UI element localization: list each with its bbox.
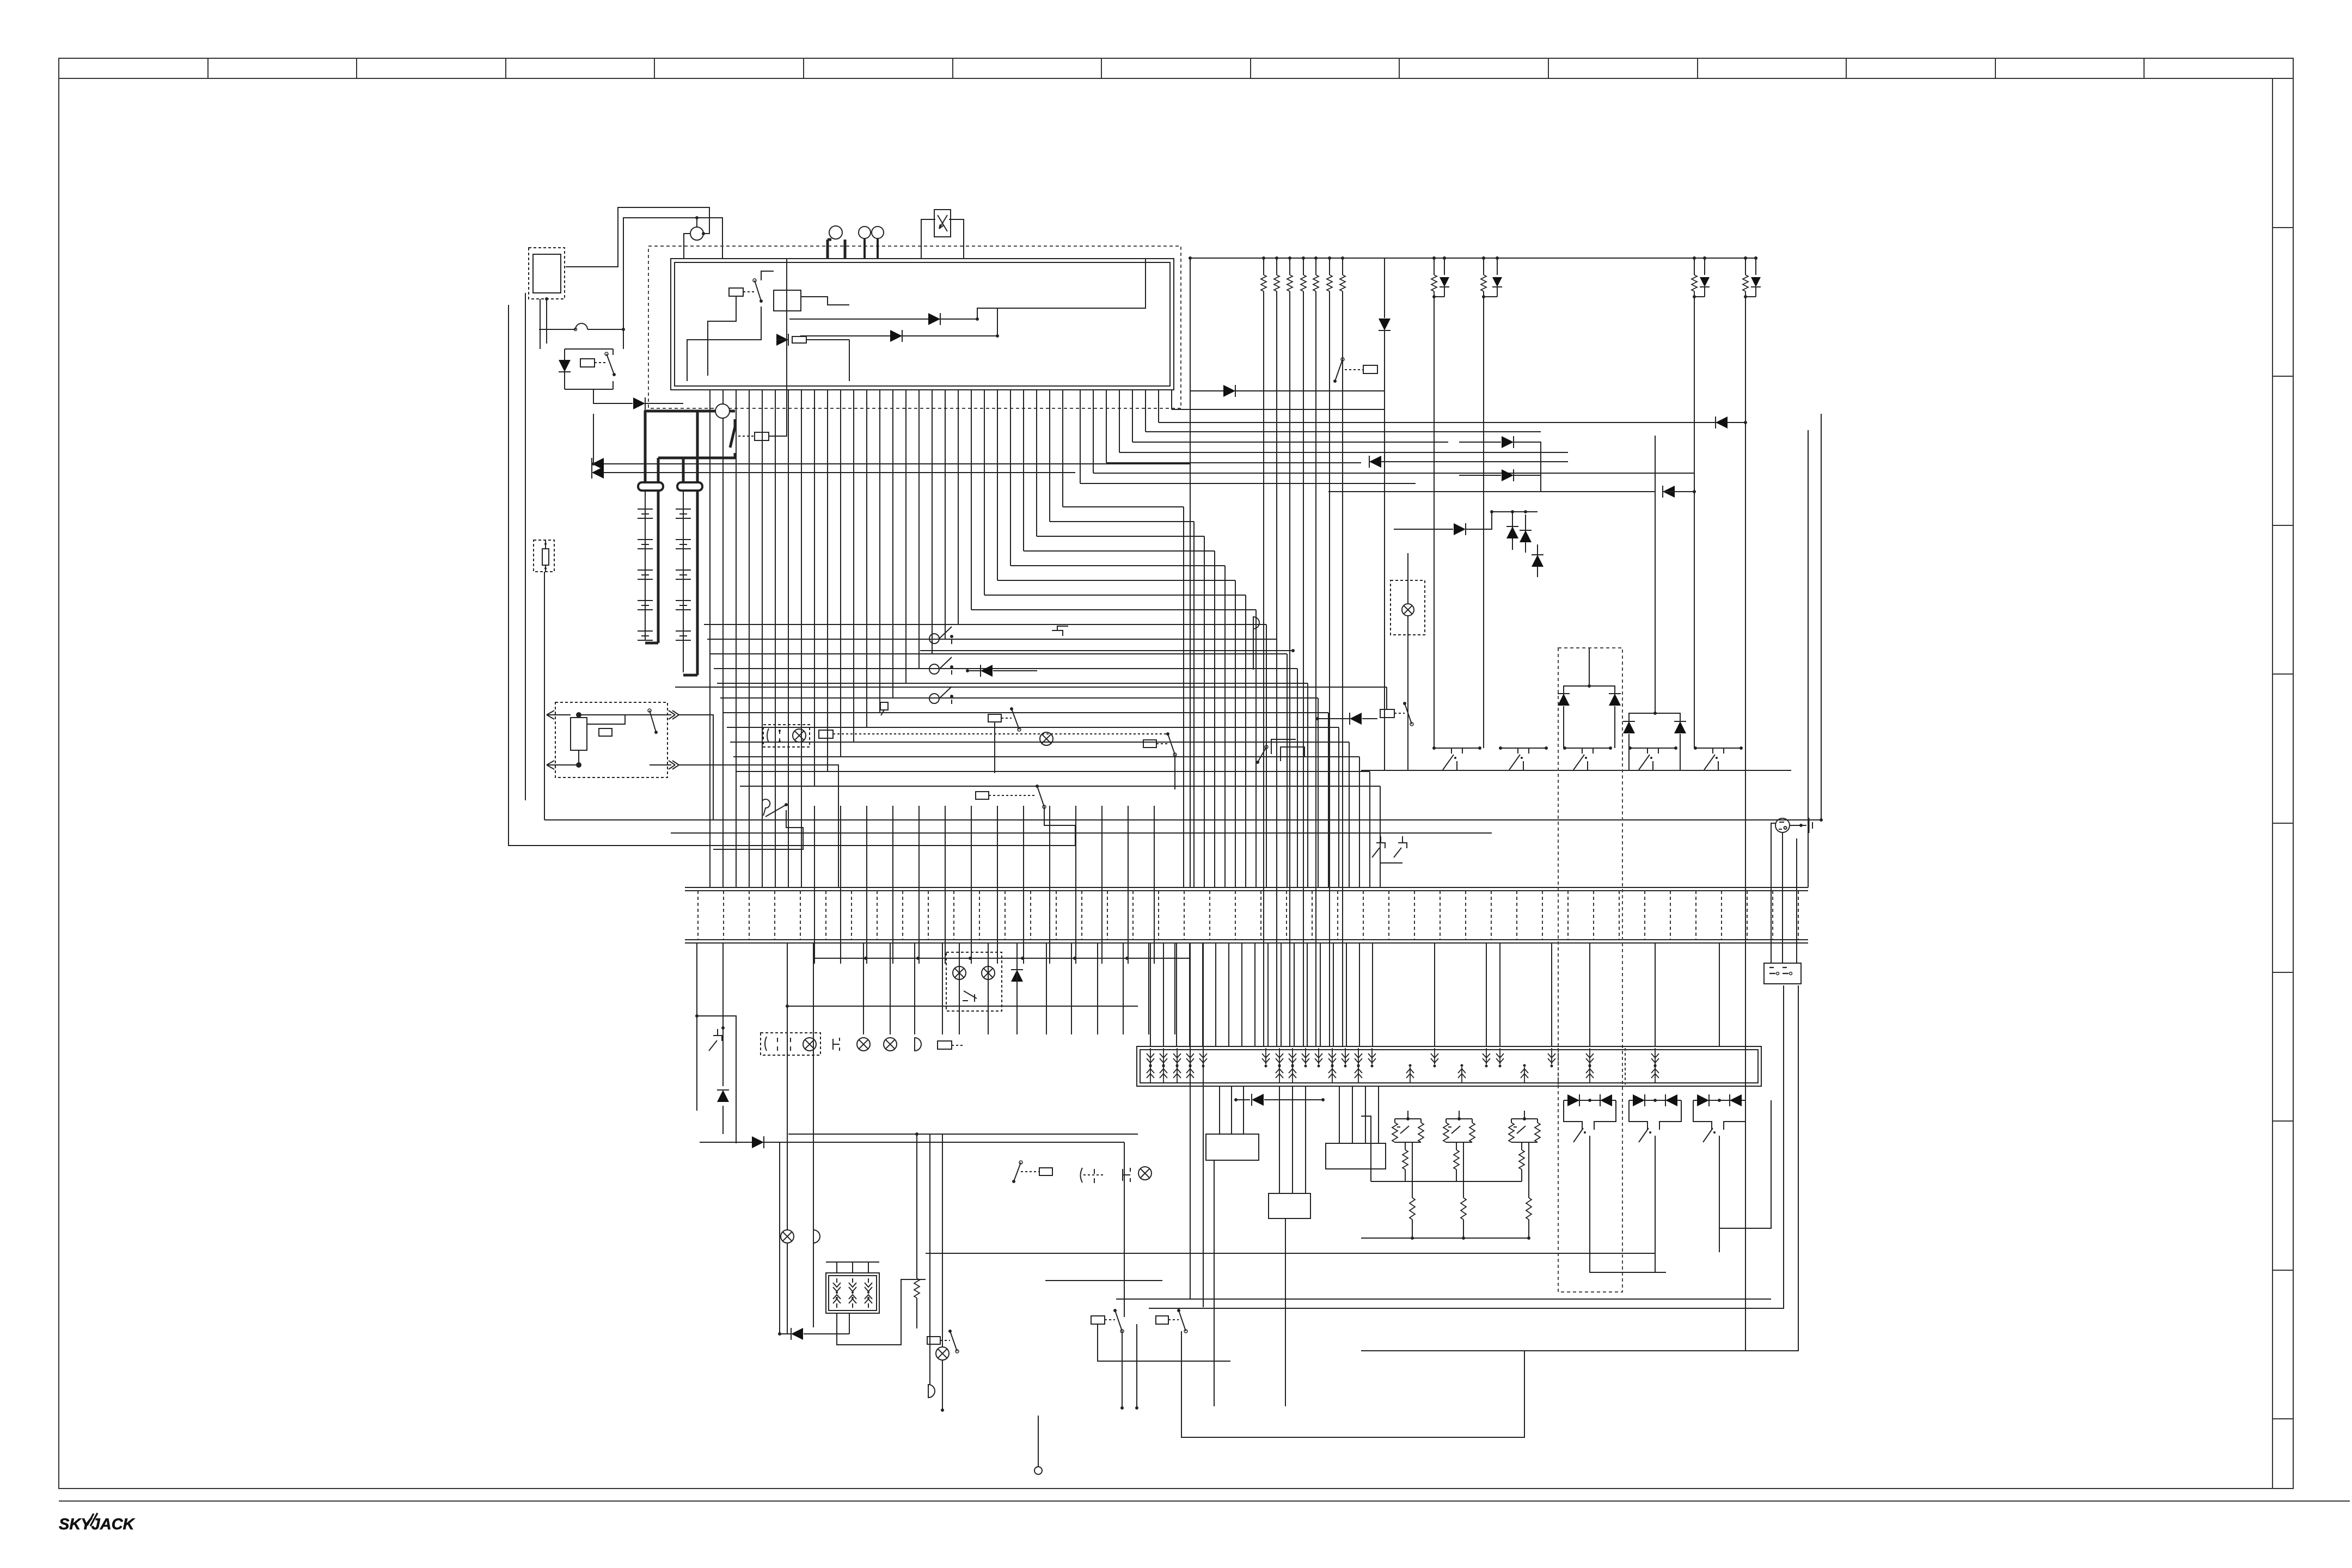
limit switch [1695,748,1741,749]
valve coil down [1655,1048,1656,1064]
horn D symbol [1253,617,1259,629]
bottom title rule [59,1500,2350,1502]
lamp [803,1038,816,1051]
switch [950,1331,957,1351]
wire [713,810,803,849]
limit switch [1565,748,1610,749]
driver switch [1573,1128,1583,1142]
wire [1407,553,1408,604]
valve coil up [1655,1067,1656,1083]
contact pair low [1372,836,1385,857]
valve coil down [1265,1048,1266,1064]
valve coil up [1163,1067,1164,1083]
wire comb [932,390,933,654]
relay K7 [1143,740,1156,748]
loop [1116,1298,1771,1300]
valve coil down [1150,1048,1151,1064]
band crosser [971,806,972,964]
pot wiper [1448,1126,1460,1134]
switch circle [872,226,884,238]
band dashed pass-throughs [697,891,699,940]
wire [942,1360,943,1410]
fuse F2 [792,336,806,343]
node [545,297,548,301]
right zone tick [2273,1120,2293,1122]
suppressor diode D1 [564,349,565,389]
right rail [1821,414,1822,820]
ground wire [1790,825,1806,826]
wire [780,1142,1124,1143]
band crosser [866,806,867,964]
lamp [781,1230,794,1243]
wire staircase drop [1276,639,1277,887]
top ruler tick [1846,58,1847,78]
lamp [857,1038,870,1051]
bank feed wire [1434,944,1435,1046]
diode [1318,718,1349,719]
small valve coil down [849,1278,856,1291]
wire jumper arc [539,329,575,330]
horn symbol small [880,702,888,715]
wire comb [840,390,841,757]
receptacle outlet [1764,963,1801,984]
wire comb cross [736,390,737,887]
wire [1796,838,1797,963]
diode on fan 776 [1716,416,1728,428]
diode D3 [776,334,788,346]
breaker switch [929,664,939,674]
wire cluster diodes [1394,529,1453,530]
rail y1262 [675,687,1387,688]
beacon lamp [1402,604,1414,616]
wire comb [1119,390,1120,452]
alarm resistor block [571,718,587,750]
right zone tick [2273,823,2293,824]
wire [1361,1116,1371,1181]
contact pair [765,1037,791,1051]
valve coil down [1486,1048,1487,1064]
diode D6 [1379,318,1391,330]
SKYJACK logo [59,1513,136,1533]
drop wire [787,943,788,1143]
resistor bank R [1263,258,1264,275]
wire [1590,1252,1666,1272]
right zone tick [2273,227,2293,228]
battery main switch blade [734,419,737,427]
switch [963,991,977,1002]
drop wire [942,943,943,1034]
drop wire [1174,943,1175,1034]
wire [776,339,788,340]
wire comb [997,390,998,580]
wire [1279,1086,1280,1193]
pushbutton H [1123,1168,1130,1182]
battery ring terminal [677,482,702,491]
diode D7 [1223,385,1235,397]
drop wire [1046,943,1047,1034]
wire staircase drop [1297,669,1298,887]
wire [1285,1218,1286,1406]
relay K2 [729,288,743,296]
wire [1219,1086,1220,1134]
valve coil down [1163,1048,1164,1064]
wire comb [1145,390,1146,432]
battery cable 4 [696,411,699,675]
valve coil up [1589,1067,1590,1083]
module box A [1206,1134,1259,1160]
valve coil up [1292,1067,1293,1083]
relay K3 [1363,365,1377,373]
wire comb [827,390,828,771]
pot bottom rail [1361,1238,1529,1239]
wire [769,258,787,436]
valve coil down [1279,1048,1280,1064]
top ruler tick [654,58,655,78]
wire [826,1261,879,1263]
bank feed wire [1499,944,1500,1046]
valve coil up [1190,1067,1191,1083]
wire staircase drop [1214,551,1215,887]
band crosser [945,806,946,964]
relay K2 dashed link [743,291,754,292]
switch contact [755,280,761,301]
wire comb [814,390,815,786]
relay pair [1091,1316,1105,1324]
drop wire [1148,943,1149,1034]
wire comb [984,390,985,595]
wire [1384,331,1385,374]
module box B [1269,1193,1310,1218]
bank feed wire [1150,944,1151,1046]
relay K10 [1380,709,1394,718]
valve coil down [1305,1048,1306,1064]
valve coil up [1177,1067,1178,1083]
pullup diode [1444,258,1445,275]
top ruler tick [207,58,209,78]
switch [1405,703,1412,724]
relay K6 [976,792,989,799]
driver diode pair [1629,1100,1681,1101]
limit rail [1361,770,1791,771]
wire [1655,1252,1656,1272]
alarm relay [599,728,612,736]
bank feed wire [1359,944,1360,1046]
top ruler tick [1548,58,1549,78]
right rail 2 [1808,430,1809,887]
wire [587,715,625,724]
wire [1771,823,1775,963]
wire staircase drop [1359,757,1360,887]
wire [545,540,546,549]
wire staircase drop [1338,727,1339,887]
bank feed wire [1333,944,1334,1046]
wire [1253,629,1254,670]
wire staircase [727,727,1339,728]
small valve coil up [865,1295,872,1308]
wire [1203,943,1204,1307]
wire circle top stub [696,218,697,227]
wire [697,1016,736,1143]
pot lower resistor [1528,1142,1529,1198]
lamp [884,1038,897,1051]
wire [565,389,613,390]
pot series resistor [1405,1142,1406,1150]
drop wire [988,943,989,1034]
wire [849,1313,850,1334]
relay K4 [755,432,769,440]
wire fan [1159,422,1745,423]
top ruler strip line [59,78,2293,79]
wire comb [1106,390,1107,463]
wire [1124,1142,1125,1317]
top ruler tick [356,58,357,78]
fuse dashed box [534,540,554,572]
arrow out right [650,764,671,765]
AC plug [1775,818,1790,832]
resistor on drop [916,1134,917,1278]
up diode [1537,544,1538,577]
bank feed wire [1589,944,1590,1046]
bank feed wire [1551,944,1552,1046]
bank feed wire [1228,944,1229,1046]
pot cluster [1395,1118,1421,1119]
wire staircase [1037,536,1204,537]
wire staircase drop [1235,580,1236,887]
valve bank box outer [1137,1046,1761,1086]
half lamp [915,1038,921,1051]
bank feed wire [1267,944,1269,1046]
wire [540,299,541,349]
platform control module dashed enclosure [648,246,1181,408]
loop3 [700,1142,780,1334]
terminal circle [1034,1467,1042,1474]
right zone tick [2273,376,2293,377]
drop wire [914,943,915,1034]
valve bank box inner [1140,1050,1758,1083]
relay K5 [988,714,1001,722]
wire staircase drop [1380,786,1381,887]
wire comb [1080,390,1081,483]
wire [722,943,724,1086]
thick stem [826,240,829,259]
wire comb [1158,390,1159,422]
wire staircase [1010,565,1225,566]
wire comb cross [722,390,724,887]
bank feed wire [1294,944,1295,1046]
wire staircase [737,771,1370,772]
wire [687,307,761,381]
hour meter [934,210,951,237]
wire staircase [1050,521,1194,522]
valve box small inner [829,1276,877,1310]
right zone tick [2273,673,2293,675]
band crosser [997,806,998,964]
valve coil down [1589,1048,1590,1064]
bank feed wire [1346,944,1347,1046]
relay K9 [927,1337,940,1344]
lamp [936,1347,949,1360]
dual diode feed 2 [593,472,604,473]
top ruler tick [1995,58,1996,78]
battery cable [644,411,647,483]
bank feed wire [1281,944,1282,1046]
relay K11 [938,1041,952,1049]
battery cable 3 [682,458,685,483]
up diode [1512,512,1513,550]
wire staircase [714,668,1297,669]
resistor bank R [1315,258,1316,275]
wire staircase drop [1193,522,1195,887]
indicator lamp circle [690,227,703,240]
horn button circle [829,226,842,239]
wire [565,348,613,350]
valve coil down [1499,1048,1500,1064]
band crosser [1154,806,1155,964]
wire [1174,755,1175,789]
wire comb cross [775,390,776,887]
wire [509,305,1075,846]
top ruler tick [1250,58,1251,78]
loop3b [1361,985,1798,1351]
wire comb [1062,390,1063,507]
band crosser [1049,806,1050,964]
wire staircase [984,595,1246,596]
bank feed wire [1163,944,1164,1046]
top ruler tick [803,58,804,78]
platform control module box outer [671,259,1174,390]
wire [849,340,850,381]
diode [717,1090,729,1102]
arrow out right 2 [669,710,679,719]
wire fan [1146,431,1541,432]
relay K1 [580,359,595,367]
limit switch [1500,748,1546,749]
module sub-box [774,290,801,311]
wire [1328,491,1655,492]
wire [623,329,624,349]
pot mid rail [1371,1181,1522,1182]
wire [1214,1160,1215,1406]
wire staircase drop [1183,507,1184,887]
bank feed wire [1372,944,1373,1046]
relay dashed link [1345,369,1363,370]
wire [1407,635,1408,770]
wire comb cross [788,390,789,887]
top ruler tick [505,58,506,78]
arrow out left [547,714,571,715]
pot lower resistor [1463,1142,1464,1198]
switch circle [859,226,871,238]
small valve coil up [833,1295,841,1308]
rail y1195 [920,650,1293,651]
wire [546,299,547,344]
wire [708,296,736,376]
lamp row dashed box [761,1033,820,1055]
contact pair [767,728,780,743]
diode D4 [928,313,940,325]
wire [1386,687,1387,709]
valve coil up [1410,1067,1411,1083]
driver switch [1639,1128,1649,1142]
tilt switch box [1271,739,1296,754]
wire [1694,296,1705,297]
valve box small outer [826,1273,879,1313]
wire [997,308,998,336]
switch [1335,359,1343,381]
alarm switch [650,710,656,732]
wire comb [853,390,854,742]
wire comb [1023,390,1024,551]
wire long with diode [800,335,997,336]
right zone column line [2272,78,2273,1489]
right zone tick [2273,525,2293,526]
resistor bank R [1342,258,1343,275]
band crosser [1101,806,1102,964]
wire [1655,1143,1656,1252]
diode branch [1459,442,1501,443]
wire fan [1093,473,1694,474]
wire staircase drop [1255,610,1257,887]
wire [1044,807,1075,846]
diode after bank [1236,1099,1250,1100]
battery cable bottom [645,642,658,645]
valve coil up [1461,1067,1462,1083]
relay row [1039,1168,1052,1175]
wire staircase [730,742,1349,743]
breaker switch [929,634,939,644]
wire [1229,390,1385,391]
pot cluster [1446,1118,1472,1119]
wire [1384,258,1385,318]
small valve coil up [849,1295,856,1308]
relay dashed link [1156,743,1168,744]
pot series resistor [1521,1142,1522,1150]
up diode [1525,514,1526,553]
long rail [926,1253,1655,1254]
wire long with diode [789,318,977,320]
wire comb [958,390,959,624]
lamp [1040,732,1053,745]
wire staircase [724,712,1328,713]
wire staircase drop [1318,698,1319,887]
bank feed wire [1307,944,1308,1046]
horn 2 [928,1385,935,1398]
wire from hourmeter [977,259,1146,319]
diode pair bridge [1564,686,1615,700]
beacon dashed box [1391,580,1425,635]
small valve coil down [865,1278,872,1291]
wire [579,715,671,718]
pushbutton [1052,626,1068,636]
wire comb cross [749,390,750,887]
wire staircase [1063,506,1184,507]
wire staircase drop [1287,654,1288,887]
pullup diode [1755,258,1756,275]
left col [787,1143,788,1230]
pot series resistor [1456,1142,1457,1150]
wire [679,715,713,820]
relay K1 dashed link [595,362,607,363]
wire comb [892,390,893,698]
wire fan [1172,409,1385,410]
drop wire [959,943,960,1034]
pushbutton [833,1038,840,1051]
limit switch [1630,748,1676,749]
valve coil down [1190,1048,1191,1064]
wire [837,1279,926,1345]
wire [544,572,545,820]
resistor bank R [1289,258,1290,275]
